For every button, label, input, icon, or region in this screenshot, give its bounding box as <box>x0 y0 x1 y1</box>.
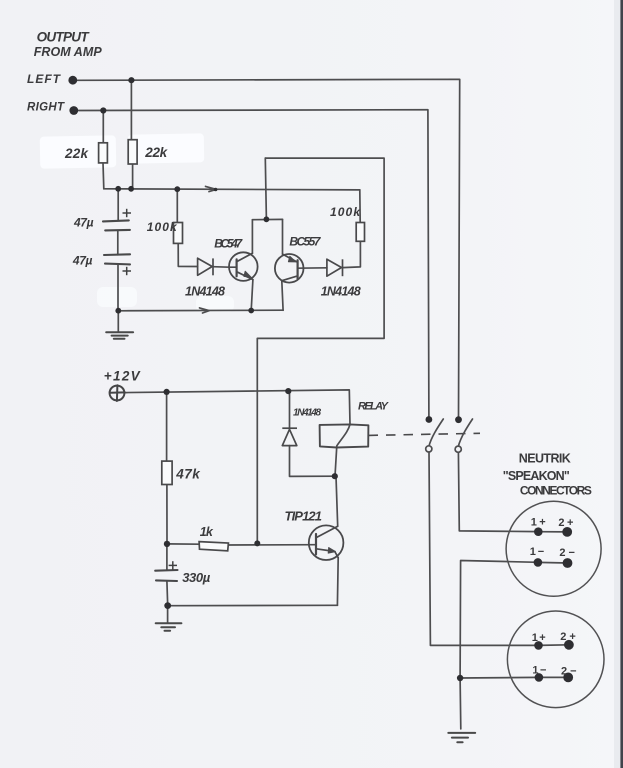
svg-text:47µ: 47µ <box>72 254 93 268</box>
svg-text:NEUTRIK: NEUTRIK <box>519 451 571 465</box>
svg-text:OUTPUT: OUTPUT <box>37 30 91 45</box>
svg-text:1−: 1− <box>532 664 546 676</box>
svg-text:BC557: BC557 <box>289 235 321 249</box>
svg-text:1k: 1k <box>200 525 214 539</box>
svg-text:LEFT: LEFT <box>27 72 62 86</box>
svg-text:47µ: 47µ <box>73 216 94 230</box>
svg-text:BC547: BC547 <box>214 237 243 251</box>
svg-text:RELAY: RELAY <box>358 401 390 413</box>
svg-text:22k: 22k <box>144 145 168 160</box>
svg-text:+12V: +12V <box>104 369 141 384</box>
svg-text:FROM AMP: FROM AMP <box>34 45 103 59</box>
svg-text:100k: 100k <box>147 220 178 234</box>
svg-text:1N4148: 1N4148 <box>185 285 225 299</box>
svg-text:100k: 100k <box>330 205 361 219</box>
svg-text:330µ: 330µ <box>182 570 211 585</box>
svg-text:CONNECTORS: CONNECTORS <box>520 483 592 497</box>
svg-text:1N4148: 1N4148 <box>321 285 361 299</box>
svg-text:1+: 1+ <box>532 632 546 644</box>
svg-text:"SPEAKON": "SPEAKON" <box>503 469 570 483</box>
svg-text:RIGHT: RIGHT <box>27 101 65 113</box>
svg-text:22k: 22k <box>64 146 89 161</box>
svg-text:TIP121: TIP121 <box>285 508 323 523</box>
svg-text:1−: 1− <box>530 546 545 558</box>
svg-text:47k: 47k <box>175 467 201 482</box>
svg-text:1N4148: 1N4148 <box>293 408 321 419</box>
